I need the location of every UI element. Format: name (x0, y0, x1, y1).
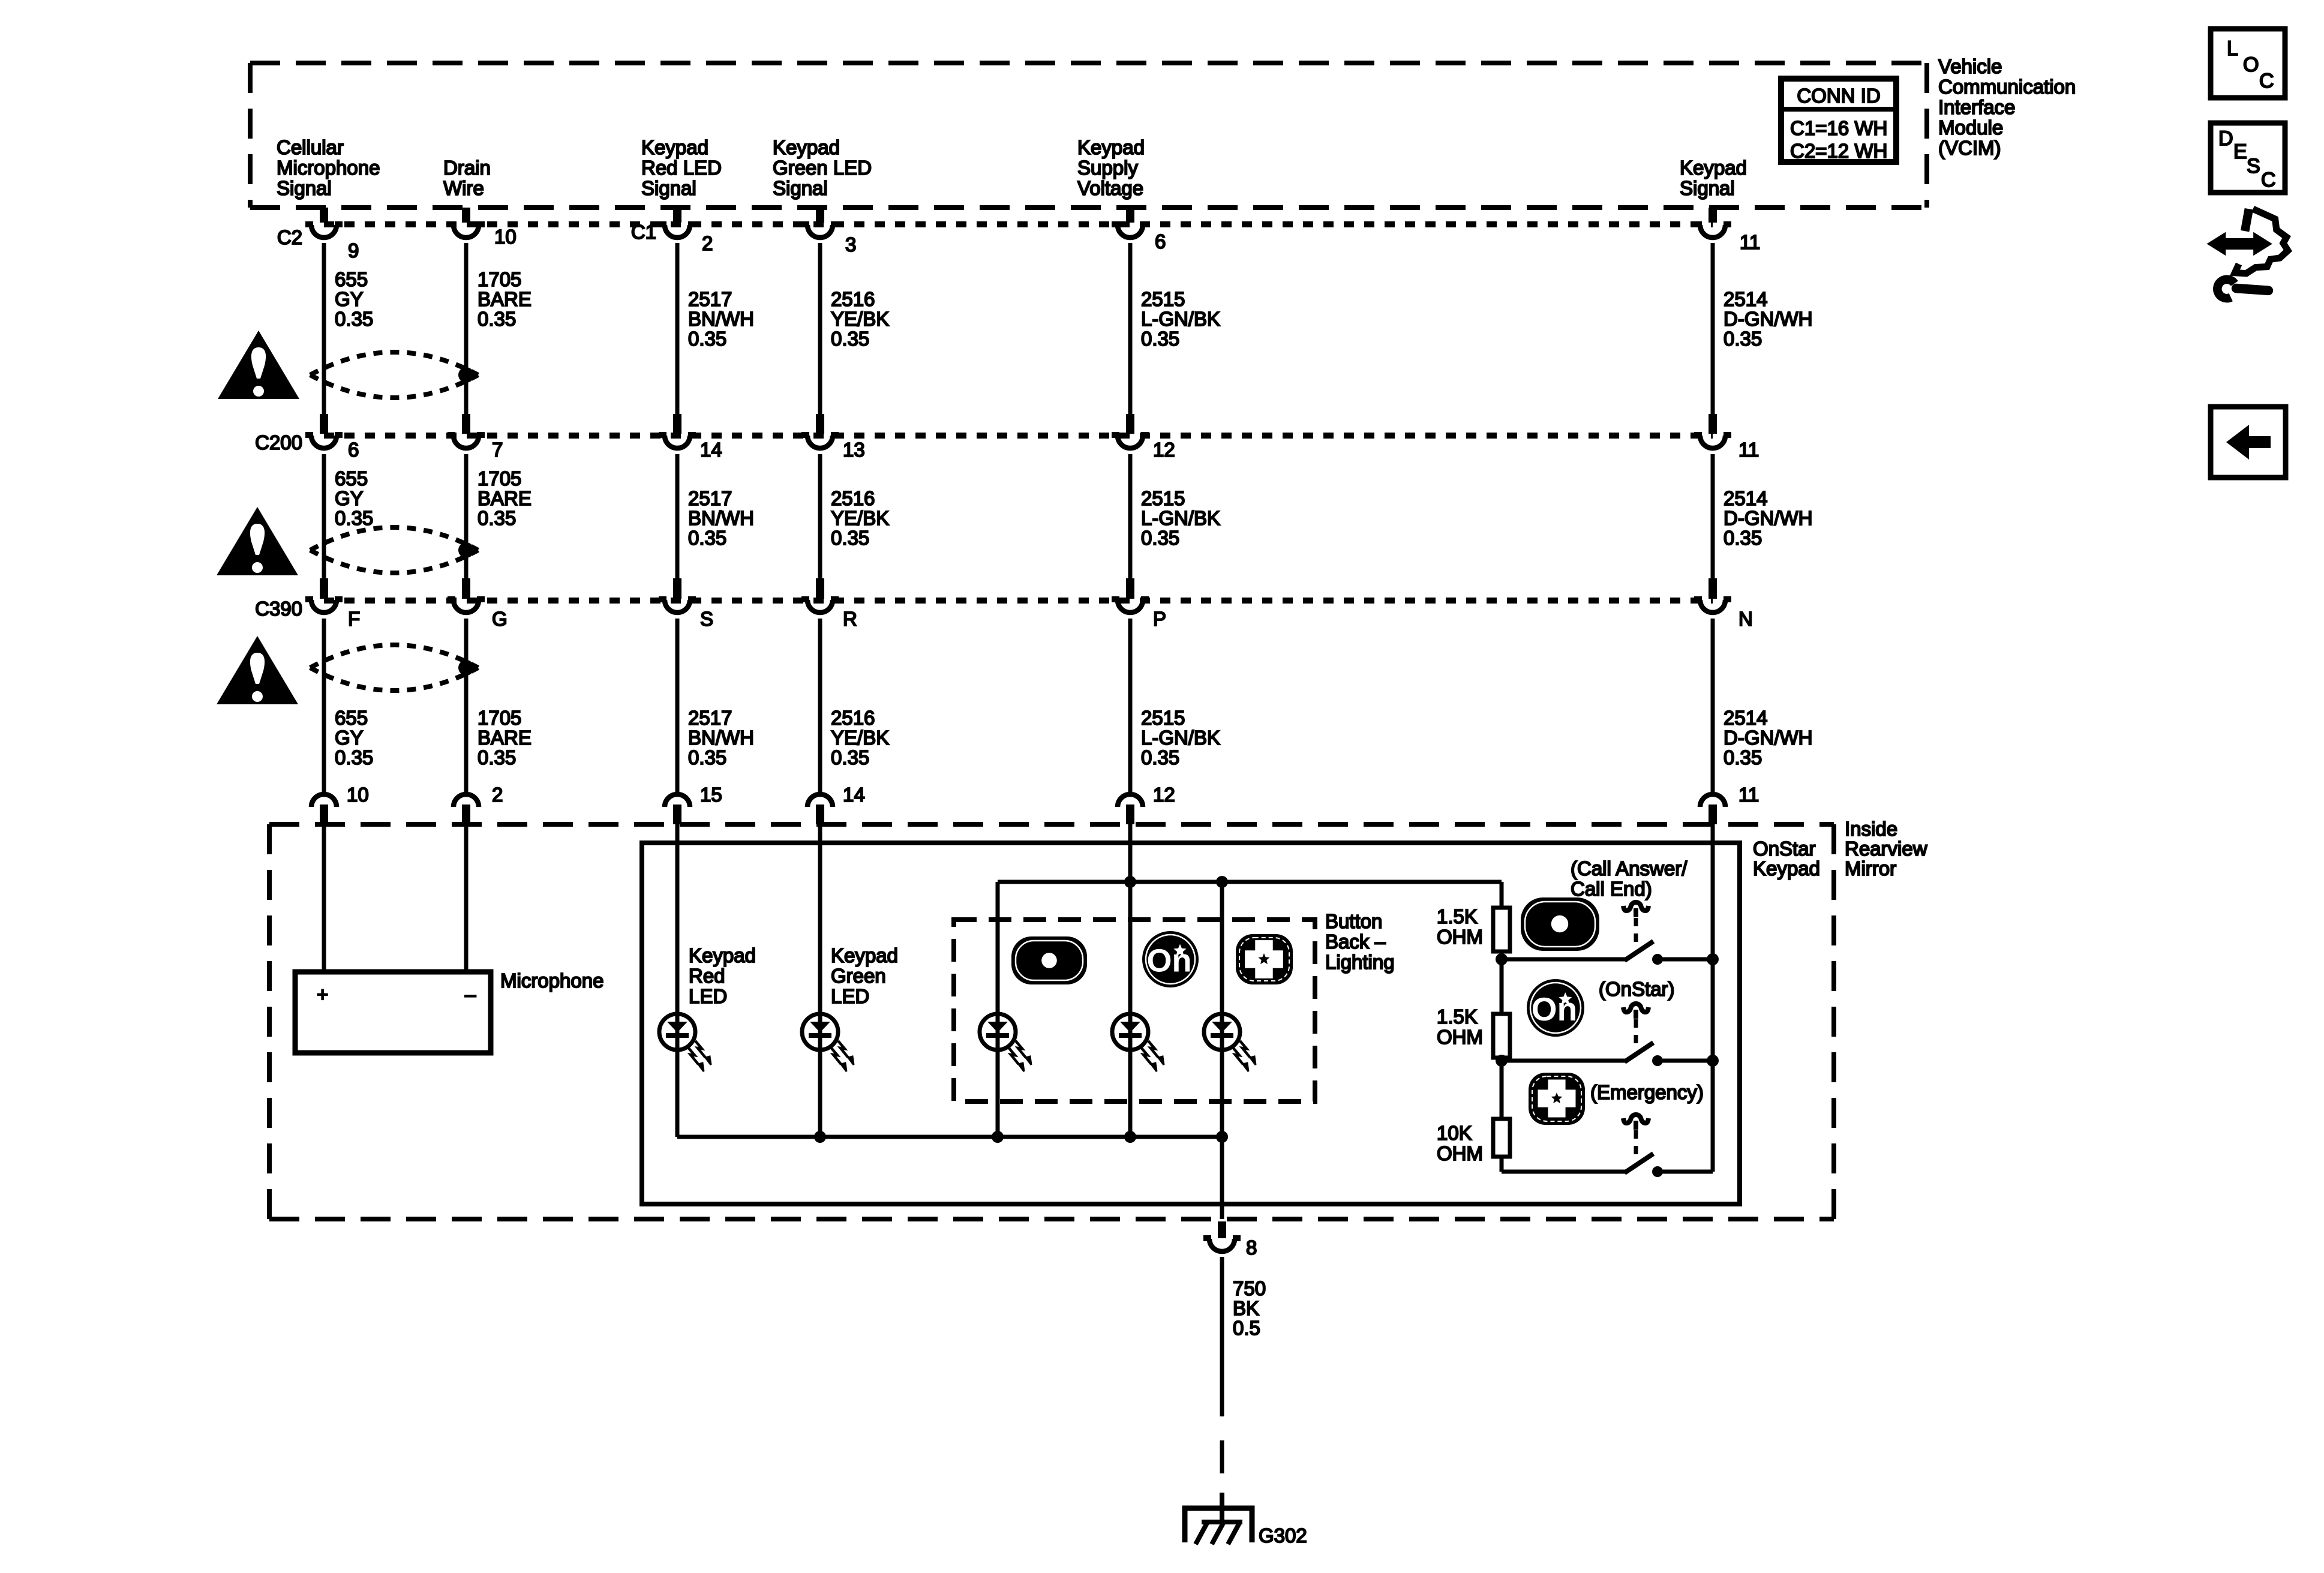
svg-text:0.35: 0.35 (831, 527, 869, 549)
connector pin 8 cup (1203, 1238, 1241, 1251)
svg-text:10: 10 (494, 226, 517, 248)
CONN ID table (1778, 79, 1899, 162)
svg-text:(OnStar): (OnStar) (1599, 978, 1675, 1000)
warning triangle symbol (217, 636, 298, 704)
connector pin cup (1694, 435, 1731, 448)
junction (814, 1131, 826, 1143)
connector pin cup (448, 599, 485, 613)
svg-text:11: 11 (1740, 231, 1760, 253)
svg-text:8: 8 (1246, 1236, 1257, 1259)
svg-text:2516: 2516 (831, 707, 875, 729)
svg-text:BARE: BARE (478, 727, 532, 749)
svg-text:OHM: OHM (1437, 926, 1483, 948)
svg-text:Microphone: Microphone (277, 157, 380, 179)
svg-text:BN/WH: BN/WH (688, 507, 754, 529)
label 1.5K OHM (1437, 1005, 1483, 1048)
svg-text:Microphone: Microphone (500, 969, 603, 992)
svg-text:C390: C390 (255, 598, 302, 620)
junction (1216, 1131, 1228, 1143)
junction (1496, 953, 1508, 965)
label Drain Wire (443, 157, 491, 199)
svg-text:OHM: OHM (1437, 1142, 1483, 1164)
svg-text:3: 3 (845, 233, 856, 256)
wire (1500, 1058, 1504, 1061)
svg-text:GY: GY (335, 487, 364, 509)
phone button icon (Call Answer/Call End) (1521, 897, 1599, 951)
wire label 750 BK 0.5 (1233, 1277, 1266, 1339)
svg-text:LED: LED (689, 985, 727, 1007)
wire (464, 619, 469, 793)
svg-text:0.35: 0.35 (688, 746, 726, 769)
wire label 2514 D-GN/WH 0.35 (1724, 288, 1812, 350)
wire label 2515 L-GN/BK 0.35 (1141, 707, 1220, 769)
wire label 2515 L-GN/BK 0.35 (1141, 288, 1220, 350)
connector stub (816, 804, 824, 824)
svg-text:P: P (1153, 608, 1166, 630)
junction (1124, 876, 1136, 888)
svg-text:2514: 2514 (1724, 707, 1767, 729)
svg-text:1705: 1705 (478, 467, 521, 490)
connector stub (673, 414, 681, 434)
svg-text:Red: Red (689, 965, 725, 987)
svg-text:LED: LED (831, 985, 869, 1007)
OnStar Keypad box (642, 843, 1740, 1204)
svg-text:Lighting: Lighting (1325, 951, 1395, 973)
backlighting supply bus (998, 882, 1502, 1137)
wire keypad supply voltage (1128, 824, 1133, 1137)
connector stub (320, 414, 328, 434)
connector pin cup (1112, 435, 1149, 448)
svg-text:0.35: 0.35 (688, 328, 726, 350)
svg-text:E: E (2233, 140, 2247, 163)
wire label 2517 BN/WH 0.35 (688, 707, 754, 769)
svg-text:R: R (843, 608, 857, 630)
connector pin cup (659, 599, 696, 613)
label (Call Answer/Call End) (1571, 857, 1688, 900)
switch OnStar (1502, 1004, 1713, 1066)
wire (675, 619, 680, 793)
wire (818, 243, 822, 414)
svg-text:10K: 10K (1437, 1122, 1472, 1144)
svg-text:2517: 2517 (688, 487, 732, 509)
svg-text:L-GN/BK: L-GN/BK (1141, 727, 1220, 749)
connector stub (462, 414, 470, 434)
svg-text:S: S (2247, 155, 2260, 178)
svg-text:Signal: Signal (641, 177, 696, 199)
connector pin cup (454, 794, 479, 807)
connector stub (1126, 208, 1134, 223)
resistor R2 1.5K OHM (1493, 1014, 1510, 1058)
svg-text:1.5K: 1.5K (1437, 905, 1478, 927)
svg-text:0.35: 0.35 (831, 746, 869, 769)
connector stub (816, 208, 824, 223)
svg-text:D-GN/WH: D-GN/WH (1724, 308, 1812, 330)
svg-text:2516: 2516 (831, 288, 875, 310)
wire label 655 GY 0.35 (335, 268, 373, 330)
svg-text:Wire: Wire (443, 177, 484, 199)
junction (1124, 1131, 1136, 1143)
connector pin cup (801, 224, 839, 238)
wire label 2515 L-GN/BK 0.35 (1141, 487, 1220, 549)
wire (322, 454, 326, 578)
svg-text:0.35: 0.35 (478, 308, 516, 330)
Button Back-Lighting dashed box (954, 920, 1315, 1101)
label Cellular Microphone Signal (277, 136, 380, 199)
resistor R1 1.5K OHM (1493, 908, 1510, 951)
svg-text:12: 12 (1153, 439, 1175, 461)
svg-text:6: 6 (1155, 230, 1166, 253)
label Keypad Green LED Signal (773, 136, 872, 199)
svg-text:BARE: BARE (478, 487, 532, 509)
connector stub (673, 208, 681, 223)
svg-text:S: S (700, 608, 713, 630)
svg-text:GY: GY (335, 288, 364, 310)
junction (1496, 1055, 1508, 1067)
svg-text:BARE: BARE (478, 288, 532, 310)
svg-text:Signal: Signal (277, 177, 332, 199)
label Keypad Red LED (689, 944, 756, 1007)
switch Emergency (1502, 1115, 1713, 1177)
svg-text:1705: 1705 (478, 707, 521, 729)
svg-text:L-GN/BK: L-GN/BK (1141, 507, 1220, 529)
connector pin cup (448, 224, 485, 238)
svg-text:Keypad: Keypad (689, 944, 756, 966)
svg-text:2515: 2515 (1141, 487, 1185, 509)
connector pin cup (659, 435, 696, 448)
svg-text:BN/WH: BN/WH (688, 308, 754, 330)
connector stub (816, 414, 824, 434)
wire label 2517 BN/WH 0.35 (688, 288, 754, 350)
label OnStar Keypad (1753, 837, 1820, 879)
label Vehicle Communication Interface Module (VCIM) (1938, 55, 2076, 159)
svg-text:BK: BK (1233, 1297, 1259, 1319)
wire (1711, 454, 1715, 578)
svg-text:655: 655 (335, 707, 368, 729)
connector stub (1126, 414, 1134, 434)
wire (1128, 619, 1133, 793)
svg-text:0.35: 0.35 (1724, 746, 1762, 769)
svg-text:Keypad: Keypad (1077, 136, 1145, 158)
label Inside Rearview Mirror (1845, 818, 1927, 879)
backlight phone button icon (1011, 936, 1087, 984)
wire microphone + (322, 824, 326, 974)
svg-text:C: C (2259, 70, 2274, 92)
svg-text:Voltage: Voltage (1077, 177, 1143, 199)
connector pin cup (1112, 224, 1149, 238)
wire (675, 454, 680, 578)
svg-text:(VCIM): (VCIM) (1938, 137, 2001, 159)
svg-text:2515: 2515 (1141, 288, 1185, 310)
svg-text:11: 11 (1739, 784, 1759, 806)
connector pin cup (807, 794, 833, 807)
connector pin cup (305, 599, 343, 613)
svg-text:C200: C200 (255, 431, 302, 454)
svg-text:2515: 2515 (1141, 707, 1185, 729)
svg-text:655: 655 (335, 268, 368, 290)
wire (675, 243, 680, 414)
connector row C2/C1 dashed connector line (324, 221, 1713, 227)
wire (464, 243, 469, 414)
backlight LED 1 (980, 1014, 1031, 1071)
connector pin cup (1694, 224, 1731, 238)
connector stub (462, 804, 470, 824)
svg-text:2516: 2516 (831, 487, 875, 509)
connector pin cup (305, 224, 343, 238)
ground wire dashed (1220, 1383, 1224, 1494)
svg-text:–: – (465, 983, 476, 1005)
connector stub (462, 578, 470, 599)
keypad green LED symbol (802, 1014, 854, 1071)
connector stub (1709, 414, 1717, 434)
connector stub (1709, 578, 1717, 599)
OnStar button icon (1527, 979, 1584, 1037)
wire (464, 454, 469, 578)
diagnostic wrench icon (2209, 209, 2288, 301)
svg-text:Rearview: Rearview (1845, 837, 1927, 860)
connector pin cup (1112, 599, 1149, 613)
wire label 2516 YE/BK 0.35 (831, 487, 889, 549)
ground symbol G302 (1185, 1493, 1252, 1544)
connector stub (1126, 578, 1134, 599)
shielded twisted pair ellipse with drain junction (310, 645, 478, 691)
svg-text:(Emergency): (Emergency) (1590, 1081, 1704, 1103)
wire keypad red LED signal (675, 824, 680, 1137)
wire (1500, 1061, 1504, 1119)
svg-text:Keypad: Keypad (1680, 157, 1747, 179)
connector pin cup (1694, 599, 1731, 613)
svg-text:C: C (2261, 169, 2276, 191)
svg-text:D-GN/WH: D-GN/WH (1724, 507, 1812, 529)
svg-text:1705: 1705 (478, 268, 521, 290)
svg-text:0.35: 0.35 (335, 746, 373, 769)
svg-text:Module: Module (1938, 116, 2003, 139)
svg-text:YE/BK: YE/BK (831, 308, 889, 330)
svg-text:D-GN/WH: D-GN/WH (1724, 727, 1812, 749)
svg-text:15: 15 (700, 784, 722, 806)
svg-text:On: On (1147, 943, 1192, 979)
wire keypad signal bus (1711, 824, 1715, 1172)
connector stub (320, 578, 328, 599)
connector pin cup (801, 599, 839, 613)
emergency button icon (1529, 1073, 1585, 1125)
svg-text:G302: G302 (1259, 1524, 1307, 1547)
svg-text:2: 2 (702, 232, 713, 254)
keypad red LED symbol (659, 1014, 711, 1071)
wire label 2516 YE/BK 0.35 (831, 707, 889, 769)
connector stub (816, 578, 824, 599)
DESC icon box (2211, 123, 2285, 193)
svg-text:GY: GY (335, 727, 364, 749)
svg-text:0.35: 0.35 (1141, 328, 1179, 350)
connector stub (320, 804, 328, 824)
connector stub (1709, 804, 1717, 824)
svg-text:2517: 2517 (688, 288, 732, 310)
junction (992, 1131, 1004, 1143)
connector pin cup (1700, 794, 1725, 807)
svg-text:OnStar: OnStar (1753, 837, 1816, 860)
svg-text:CONN ID: CONN ID (1797, 85, 1880, 107)
svg-text:L: L (2227, 37, 2238, 60)
warning triangle symbol (217, 507, 298, 575)
svg-text:D: D (2218, 127, 2233, 150)
ground wire in keypad (1220, 1137, 1224, 1219)
svg-text:Supply: Supply (1077, 157, 1138, 179)
svg-text:Mirror: Mirror (1845, 857, 1896, 879)
microphone box (295, 972, 491, 1053)
wire (1128, 243, 1133, 414)
svg-text:0.35: 0.35 (335, 308, 373, 330)
svg-text:9: 9 (348, 239, 359, 262)
warning triangle symbol (218, 331, 299, 399)
svg-text:Keypad: Keypad (1753, 857, 1820, 879)
connector stub (1218, 1221, 1226, 1238)
svg-text:655: 655 (335, 467, 368, 490)
svg-text:G: G (492, 608, 508, 630)
svg-text:Keypad: Keypad (641, 136, 708, 158)
svg-text:0.35: 0.35 (478, 746, 516, 769)
svg-text:0.35: 0.35 (688, 527, 726, 549)
svg-text:1.5K: 1.5K (1437, 1005, 1478, 1028)
wire label 2516 YE/BK 0.35 (831, 288, 889, 350)
svg-text:O: O (2243, 53, 2259, 76)
wire label 1705 BARE 0.35 (478, 268, 532, 330)
svg-text:Call End): Call End) (1571, 878, 1652, 900)
Inside Rearview Mirror dashed box (269, 824, 1834, 1219)
wire microphone - (464, 824, 469, 974)
svg-text:L-GN/BK: L-GN/BK (1141, 308, 1220, 330)
svg-text:On: On (1532, 990, 1577, 1028)
svg-text:Back –: Back – (1325, 930, 1386, 953)
svg-text:2514: 2514 (1724, 487, 1767, 509)
svg-text:750: 750 (1233, 1277, 1266, 1299)
wire label 655 GY 0.35 (335, 707, 373, 769)
svg-text:0.35: 0.35 (335, 507, 373, 529)
connector pin cup (305, 435, 343, 448)
label 10K OHM (1437, 1122, 1483, 1164)
svg-text:(Call Answer/: (Call Answer/ (1571, 857, 1688, 879)
connector stub (673, 804, 681, 824)
svg-text:F: F (348, 608, 360, 630)
svg-text:14: 14 (700, 439, 722, 461)
svg-text:YE/BK: YE/BK (831, 507, 889, 529)
wire label 655 GY 0.35 (335, 467, 373, 529)
svg-text:0.35: 0.35 (1724, 328, 1762, 350)
wire keypad green LED signal (818, 824, 822, 1137)
svg-text:7: 7 (492, 439, 503, 461)
svg-text:Vehicle: Vehicle (1938, 55, 2002, 77)
svg-text:Cellular: Cellular (277, 136, 344, 158)
connector row C390 dashed connector line (324, 598, 1713, 604)
svg-text:Keypad: Keypad (773, 136, 840, 158)
svg-text:10: 10 (347, 784, 369, 806)
switch Call Answer/Call End (1502, 902, 1713, 965)
Vehicle Communication Interface Module (VCIM) box (250, 63, 1927, 208)
connector row C200 dashed connector line (324, 433, 1713, 439)
svg-text:0.35: 0.35 (831, 328, 869, 350)
connector pin cup (801, 435, 839, 448)
svg-text:YE/BK: YE/BK (831, 727, 889, 749)
connector stub (1709, 208, 1717, 223)
svg-text:+: + (317, 983, 328, 1005)
svg-text:13: 13 (843, 439, 865, 461)
svg-text:Green LED: Green LED (773, 157, 872, 179)
wire label 2514 D-GN/WH 0.35 (1724, 487, 1812, 549)
svg-text:Communication: Communication (1938, 76, 2076, 98)
resistor R3 10K OHM (1493, 1119, 1510, 1157)
wire (1128, 454, 1133, 578)
wire label 2517 BN/WH 0.35 (688, 487, 754, 549)
svg-text:0.35: 0.35 (1141, 746, 1179, 769)
svg-text:BN/WH: BN/WH (688, 727, 754, 749)
backlight OnStar button icon (1142, 931, 1199, 987)
shielded twisted pair ellipse with drain junction (310, 527, 478, 573)
svg-text:Signal: Signal (1680, 177, 1735, 199)
svg-text:Drain: Drain (443, 157, 491, 179)
label Keypad Supply Voltage (1077, 136, 1145, 199)
svg-text:N: N (1739, 608, 1753, 630)
wire label 1705 BARE 0.35 (478, 467, 532, 529)
svg-text:12: 12 (1153, 784, 1175, 806)
svg-text:0.35: 0.35 (1724, 527, 1762, 549)
connector stub (320, 208, 328, 223)
junction (1216, 876, 1228, 888)
svg-text:0.35: 0.35 (1141, 527, 1179, 549)
wire label 1705 BARE 0.35 (478, 707, 532, 769)
wire label 2514 D-GN/WH 0.35 (1724, 707, 1812, 769)
connector pin cup (448, 435, 485, 448)
svg-text:6: 6 (348, 439, 359, 461)
LOC icon box (2211, 29, 2285, 98)
wire (818, 454, 822, 578)
wire (322, 619, 326, 793)
svg-text:14: 14 (843, 784, 865, 806)
svg-text:2: 2 (492, 784, 503, 806)
label Keypad Green LED (831, 944, 898, 1007)
connector stub (673, 578, 681, 599)
LED cathode ground bus (677, 1135, 1222, 1139)
junction (1707, 1055, 1719, 1067)
backlight LED 2 (1112, 1014, 1164, 1071)
svg-text:Signal: Signal (773, 177, 828, 199)
label 1.5K OHM (1437, 905, 1483, 948)
svg-text:11: 11 (1739, 439, 1759, 461)
left arrow icon box (2211, 407, 2286, 478)
connector pin cup (665, 794, 690, 807)
svg-text:Button: Button (1325, 910, 1382, 932)
svg-text:C2=12 WH: C2=12 WH (1790, 140, 1887, 162)
svg-text:C1: C1 (631, 221, 656, 243)
label Keypad Red LED Signal (641, 136, 722, 199)
ground wire (1220, 1257, 1224, 1383)
wire (322, 243, 326, 414)
svg-text:C2: C2 (277, 226, 302, 248)
connector pin cup (311, 794, 337, 807)
label Keypad Signal (1680, 157, 1747, 199)
backlight emergency button icon (1236, 934, 1293, 984)
svg-text:0.35: 0.35 (478, 507, 516, 529)
wire (1711, 243, 1715, 414)
connector stub (462, 208, 470, 223)
wire (1500, 951, 1504, 1014)
wire (1500, 1157, 1504, 1172)
svg-text:2517: 2517 (688, 707, 732, 729)
svg-text:OHM: OHM (1437, 1026, 1483, 1048)
svg-text:0.5: 0.5 (1233, 1317, 1260, 1339)
svg-text:Red LED: Red LED (641, 157, 722, 179)
connector stub (1126, 804, 1134, 824)
wire (818, 619, 822, 793)
svg-text:Interface: Interface (1938, 96, 2015, 118)
